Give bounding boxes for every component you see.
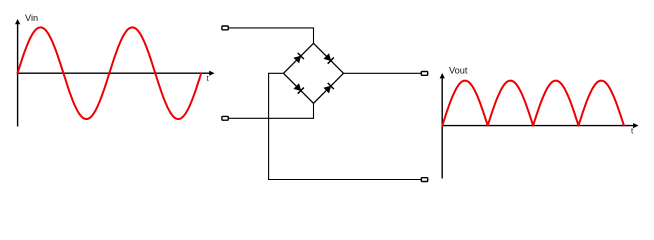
bridge edge top-left (left vertex to top vertex) (284, 43, 314, 73)
left graph Vin vertical axis (15, 19, 20, 127)
right graph t horizontal axis (442, 123, 638, 128)
terminal DC output right-middle (421, 72, 427, 76)
diode D4 bottom-right arm (anode bottom vertex, cathode right vertex) (324, 83, 334, 93)
bridge edge top-right (top vertex to right vertex) (314, 43, 344, 73)
svg-text:t: t (207, 74, 210, 83)
diode D2 top-right arm (anode top vertex, cathode right vertex) (324, 54, 334, 64)
diode D1 top-left arm (anode left vertex, cathode top vertex) (294, 53, 304, 63)
bridge edge bottom-left (left vertex to bottom vertex) (284, 73, 314, 103)
Vout rectified waveform (4 humps) (442, 81, 624, 126)
wire from top-left terminal to bridge top vertex (229, 28, 314, 43)
terminal AC input middle-left (222, 116, 228, 120)
diode D3 bottom-left arm (anode left vertex, cathode bottom vertex) (294, 84, 304, 94)
wire from bridge left vertex down to bottom-right terminal (269, 73, 422, 179)
terminal DC output bottom-right (421, 178, 427, 182)
svg-text:Vout: Vout (449, 66, 468, 76)
bridge edge bottom-right (bottom vertex to right vertex) (314, 73, 344, 103)
svg-text:Vin: Vin (25, 13, 38, 23)
left graph t horizontal axis (18, 71, 215, 76)
Vin sine waveform (2 periods) (18, 27, 202, 119)
terminal AC input top-left (222, 26, 228, 30)
right graph Vout vertical axis (440, 73, 445, 179)
wire from middle-left terminal to bridge bottom vertex (229, 103, 314, 118)
wire from bridge right vertex to right terminal (344, 72, 422, 74)
